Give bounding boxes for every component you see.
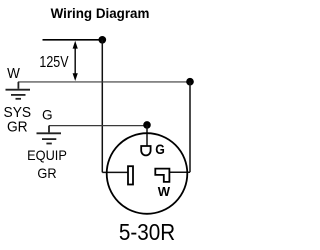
ground symbol SYS GR (6, 82, 31, 99)
junction dot B (neutral) (186, 78, 194, 86)
wire: horizontal into W slot (169, 171, 190, 173)
junction dot A (hot) (98, 36, 106, 44)
wire: ground vertical drop to G slot (146, 125, 148, 146)
svg-text:G: G (155, 141, 165, 157)
svg-text:5-30R: 5-30R (119, 219, 175, 246)
left slot (hot blade opening) (128, 166, 133, 184)
svg-text:Wiring Diagram: Wiring Diagram (51, 6, 150, 21)
wire: neutral vertical drop right side (189, 82, 191, 173)
wire: horizontal into left slot (102, 171, 128, 173)
svg-text:W: W (7, 65, 20, 82)
wire: neutral W line (18, 81, 190, 83)
receptacle outline 5-30R (107, 133, 188, 214)
W slot (L shaped neutral opening) (155, 169, 169, 182)
svg-text:GR: GR (7, 119, 28, 136)
svg-text:125V: 125V (39, 54, 69, 72)
svg-text:G: G (42, 108, 53, 123)
svg-text:GR: GR (37, 166, 56, 182)
ground symbol EQUIP GR (37, 126, 62, 144)
wire: hot vertical drop from dot A (101, 40, 103, 173)
svg-text:EQUIP: EQUIP (27, 148, 67, 164)
wire: hot supply top line (43, 39, 103, 41)
wire: equipment ground line (49, 125, 147, 127)
G slot (U shaped ground opening) (141, 146, 150, 155)
junction dot C (ground) (143, 121, 151, 129)
dimension arrow 125V (double headed) (73, 41, 78, 81)
svg-text:W: W (158, 184, 171, 199)
